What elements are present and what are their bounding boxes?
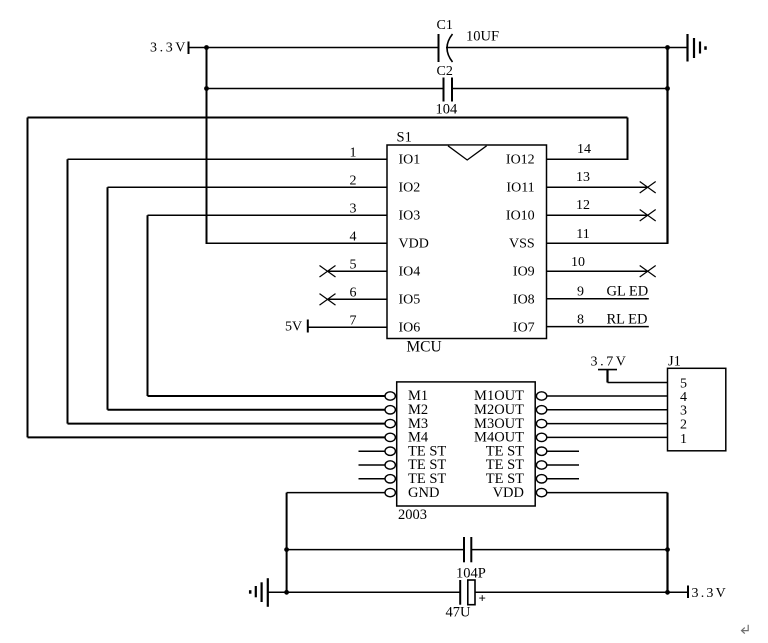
2003 pin TEST-R3 circle <box>536 475 546 483</box>
net 3.3V bottom-right terminal <box>688 586 728 602</box>
wire IO1 net to M3 <box>68 423 386 425</box>
connector J1 body <box>668 354 726 451</box>
wire 3.3V rail to C1 <box>189 47 439 49</box>
2003 pin TEST-R1 circle <box>536 447 546 455</box>
svg-text:IO3: IO3 <box>399 209 421 224</box>
2003 pin VDD circle <box>536 488 546 496</box>
2003 pin M2 circle <box>385 406 395 414</box>
wire C2 rail left <box>207 88 444 90</box>
wire bottom 104P rail right <box>471 549 667 551</box>
svg-text:2003: 2003 <box>398 507 427 523</box>
svg-text:3.3V: 3.3V <box>692 586 728 601</box>
svg-text:10: 10 <box>571 255 585 270</box>
wire pin 14 stub <box>547 158 629 160</box>
wire TEST-R2 stub <box>547 464 579 466</box>
wire IO12 net left vertical <box>27 118 29 438</box>
capacitor C2 104 <box>436 64 459 118</box>
2003 pin M4OUT circle <box>536 433 546 441</box>
2003 pin GND circle <box>385 488 395 496</box>
wire pin 2 IO2 <box>108 186 388 188</box>
wire M4OUT to J1 pin1 <box>547 436 668 438</box>
wire IO3 net to M1 <box>148 395 386 397</box>
wire TEST-R1 stub <box>547 450 579 452</box>
wire IO12 net top horizontal <box>28 117 628 119</box>
2003 pin TEST-L2 circle <box>385 461 395 469</box>
node junction GND vert/47U rail <box>284 590 289 595</box>
svg-text:2: 2 <box>680 417 687 432</box>
wire M1OUT to J1 pin4 <box>547 395 668 397</box>
svg-text:S1: S1 <box>397 130 412 146</box>
svg-text:1: 1 <box>680 432 687 447</box>
no-connect X pin 12 <box>640 210 656 222</box>
node junction V1/C2 rail <box>204 86 209 91</box>
ground symbol top-right <box>688 34 706 62</box>
wire vertical from 3.3V junction down to VDD pin <box>206 48 208 244</box>
no-connect X pin 5 <box>320 266 336 278</box>
2003 pin M1OUT circle <box>536 392 546 400</box>
svg-text:104: 104 <box>436 102 459 118</box>
2003 pin TEST-L3 circle <box>385 475 395 483</box>
svg-text:5: 5 <box>350 258 357 273</box>
svg-text:3.7V: 3.7V <box>591 355 629 370</box>
svg-text:C2: C2 <box>437 64 453 79</box>
node junction 3.3V/V1 <box>204 45 209 50</box>
svg-text:C1: C1 <box>437 18 453 33</box>
svg-text:10UF: 10UF <box>466 29 499 45</box>
svg-text:1: 1 <box>350 146 357 161</box>
wire IO12 net right vertical <box>627 118 629 160</box>
2003 pin TEST-R2 circle <box>536 461 546 469</box>
2003 pin M4 circle <box>385 433 395 441</box>
svg-text:MCU: MCU <box>406 339 441 356</box>
wire bottom 104P rail left <box>287 549 464 551</box>
2003 pin M2OUT circle <box>536 406 546 414</box>
wire VDD pin to vertical <box>547 492 668 494</box>
svg-text:IO8: IO8 <box>513 293 535 308</box>
wire pin 12 stub <box>547 214 648 216</box>
svg-text:IO12: IO12 <box>506 153 535 168</box>
svg-text:6: 6 <box>350 286 357 301</box>
svg-text:5V: 5V <box>285 320 302 335</box>
svg-text:IO1: IO1 <box>399 153 421 168</box>
svg-text:3.3V: 3.3V <box>150 41 188 56</box>
wire TEST-L1 stub <box>359 450 386 452</box>
wire ground vertical (VSS net) <box>666 48 668 244</box>
wire bottom 47U rail left <box>268 591 460 593</box>
wire pin 9 GLED <box>547 284 649 300</box>
wire IO2 net vertical <box>107 187 109 410</box>
wire VSS pin 11 <box>547 242 669 244</box>
svg-text:8: 8 <box>577 313 584 328</box>
wire VDD vertical <box>666 493 668 593</box>
svg-text:2: 2 <box>350 174 357 189</box>
wire IO12 net to M4 <box>28 436 386 438</box>
svg-text:GND: GND <box>408 485 439 501</box>
svg-text:47U: 47U <box>446 605 472 621</box>
wire TEST-L2 stub <box>359 464 386 466</box>
node junction VDD vert/47U rail <box>665 590 670 595</box>
svg-text:4: 4 <box>680 390 687 405</box>
svg-text:IO5: IO5 <box>399 293 421 308</box>
wire bottom 47U rail right <box>475 591 688 593</box>
svg-text:J1: J1 <box>668 354 681 370</box>
wire IO1 net vertical <box>67 159 69 423</box>
paragraph return mark <box>742 625 749 634</box>
wire IO2 net to M2 <box>108 409 386 411</box>
node junction GND vert/104P rail <box>284 547 289 552</box>
2003 pin M3OUT circle <box>536 419 546 427</box>
svg-text:12: 12 <box>576 198 590 213</box>
no-connect X pin 6 <box>320 294 336 306</box>
svg-text:14: 14 <box>577 142 591 157</box>
svg-text:7: 7 <box>350 314 357 329</box>
2003 pin M3 circle <box>385 419 395 427</box>
wire IO3 net vertical <box>147 215 149 396</box>
wire pin 13 stub <box>547 186 648 188</box>
wire pin 5 IO4 stub <box>328 270 388 272</box>
no-connect X pin 10 <box>640 266 656 278</box>
capacitor C1 10UF <box>437 18 500 62</box>
wire C2 rail right <box>452 88 668 90</box>
svg-text:IO9: IO9 <box>513 265 535 280</box>
wire VDD pin 4 <box>206 242 388 244</box>
node junction C1/ground vertical <box>665 45 670 50</box>
svg-text:104P: 104P <box>456 566 486 582</box>
wire TEST-L3 stub <box>359 478 386 480</box>
no-connect X pin 13 <box>640 182 656 194</box>
ground symbol bottom-left <box>250 578 268 607</box>
svg-text:VDD: VDD <box>399 237 429 252</box>
node junction VDD vert/104P rail <box>665 547 670 552</box>
wire pin 8 RLED <box>547 312 649 328</box>
svg-text:VDD: VDD <box>493 485 524 501</box>
net 3.3V top-left terminal <box>150 41 189 56</box>
svg-text:IO11: IO11 <box>506 181 534 196</box>
net 3.7V terminal <box>591 355 669 383</box>
svg-text:IO2: IO2 <box>399 181 421 196</box>
svg-text:IO7: IO7 <box>513 321 535 336</box>
svg-text:GL ED: GL ED <box>607 284 649 300</box>
svg-text:RL ED: RL ED <box>607 312 648 328</box>
wire M2OUT to J1 pin3 <box>547 409 668 411</box>
svg-text:4: 4 <box>350 230 357 245</box>
wire pin 3 IO3 <box>148 214 388 216</box>
wire GND pin to vertical <box>287 492 386 494</box>
MCU U1 S1 chip body <box>387 130 547 356</box>
capacitor C4 47U electrolytic <box>446 580 486 621</box>
wire C1 to ground <box>446 47 688 49</box>
capacitor C3 104P <box>456 537 486 582</box>
node junction C2 rail/ground vertical <box>665 86 670 91</box>
svg-text:+: + <box>479 591 486 606</box>
svg-text:VSS: VSS <box>509 237 535 252</box>
wire pin 6 IO5 stub <box>328 298 388 300</box>
svg-text:9: 9 <box>577 285 584 300</box>
wire GND vertical <box>286 493 288 593</box>
2003 pin TEST-L1 circle <box>385 447 395 455</box>
2003 pin M1 circle <box>385 392 395 400</box>
svg-text:IO10: IO10 <box>506 209 535 224</box>
IC U2 2003 chip body <box>397 382 536 523</box>
wire M3OUT to J1 pin2 <box>547 423 668 425</box>
svg-text:3: 3 <box>350 202 357 217</box>
svg-text:3: 3 <box>680 404 687 419</box>
wire pin 1 IO1 <box>68 158 388 160</box>
svg-text:11: 11 <box>576 227 589 242</box>
svg-text:IO6: IO6 <box>399 321 421 336</box>
net 5V terminal pin 7 <box>285 320 387 335</box>
svg-text:13: 13 <box>576 170 590 185</box>
svg-text:IO4: IO4 <box>399 265 421 280</box>
wire TEST-R3 stub <box>547 478 579 480</box>
wire pin 10 stub <box>547 270 648 272</box>
